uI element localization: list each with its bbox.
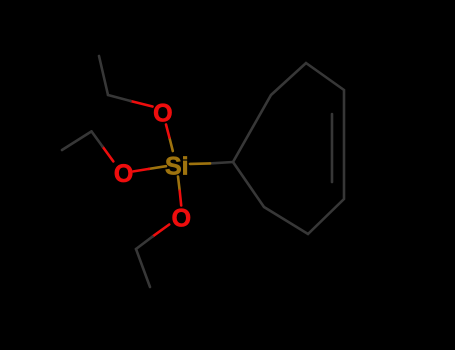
bond Si-O left: tan half [149, 166, 166, 169]
wire [331, 114, 334, 182]
left ethoxy: O-C1 gray half [92, 131, 103, 146]
svg-text:O: O [172, 204, 191, 232]
bond Si-O bottom: tan half [178, 177, 180, 191]
benzene-like carbocycle ring [233, 63, 344, 234]
left ethoxy: C1-C2 [62, 131, 92, 150]
left ethoxy: O-C1 red half [102, 146, 113, 161]
bottom ethoxy: O-C1 red half [153, 225, 170, 237]
top ethoxy: O-C1 gray half [108, 95, 131, 101]
bond Si-O top: red half [166, 125, 169, 138]
top ethoxy: O-C1 red half [131, 101, 153, 107]
bond Si-O left: red half [134, 169, 150, 172]
bond Si-O top: tan half [169, 138, 172, 151]
bottom ethoxy: O-C1 gray half [136, 237, 153, 249]
wire [233, 63, 344, 234]
bond Si-C gray half [210, 162, 233, 163]
bottom ethoxy: C1-C2 [136, 249, 150, 287]
svg-text:O: O [153, 100, 172, 128]
top ethoxy: C1-C2 [99, 56, 108, 95]
bond Si-C tan half [190, 162, 210, 165]
svg-text:Si: Si [165, 153, 189, 181]
wire [62, 56, 344, 287]
svg-text:O: O [114, 160, 133, 188]
bond Si-O bottom: red half [180, 191, 182, 206]
